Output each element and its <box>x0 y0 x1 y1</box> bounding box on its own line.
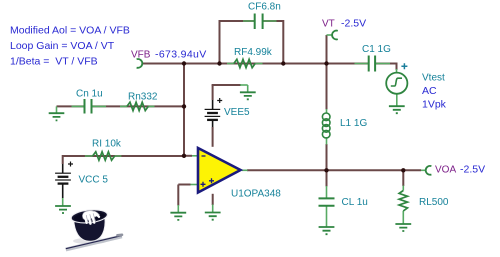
svg-text:Modified Aol = VOA / VFB: Modified Aol = VOA / VFB <box>10 25 130 37</box>
svg-text:VOA: VOA <box>435 165 456 176</box>
svg-text:C1 1G: C1 1G <box>362 44 391 55</box>
svg-text:RL500: RL500 <box>419 197 449 208</box>
svg-text:CF6.8n: CF6.8n <box>248 2 281 13</box>
svg-text:VT: VT <box>322 19 335 30</box>
svg-text:Rn332: Rn332 <box>128 92 158 103</box>
svg-text:1/Beta = VT / VFB: 1/Beta = VT / VFB <box>10 56 98 68</box>
svg-text:Vtest: Vtest <box>422 73 445 84</box>
svg-text:-673.94uV: -673.94uV <box>155 49 207 61</box>
svg-text:AC: AC <box>422 85 437 97</box>
svg-text:VEE5: VEE5 <box>224 107 250 118</box>
svg-text:CL 1u: CL 1u <box>342 197 368 208</box>
svg-text:-2.5V: -2.5V <box>341 18 366 30</box>
svg-text:VCC 5: VCC 5 <box>79 175 109 186</box>
svg-text:RI 10k: RI 10k <box>92 139 122 150</box>
svg-text:-2.5V: -2.5V <box>460 164 485 176</box>
svg-text:VFB: VFB <box>131 50 151 61</box>
svg-text:U1OPA348: U1OPA348 <box>231 189 281 200</box>
svg-text:Loop Gain = VOA / VT: Loop Gain = VOA / VT <box>10 40 115 52</box>
svg-text:RF4.99k: RF4.99k <box>234 47 273 58</box>
svg-text:1Vpk: 1Vpk <box>422 99 447 111</box>
svg-text:Cn 1u: Cn 1u <box>76 89 103 100</box>
svg-text:L1 1G: L1 1G <box>340 118 367 129</box>
